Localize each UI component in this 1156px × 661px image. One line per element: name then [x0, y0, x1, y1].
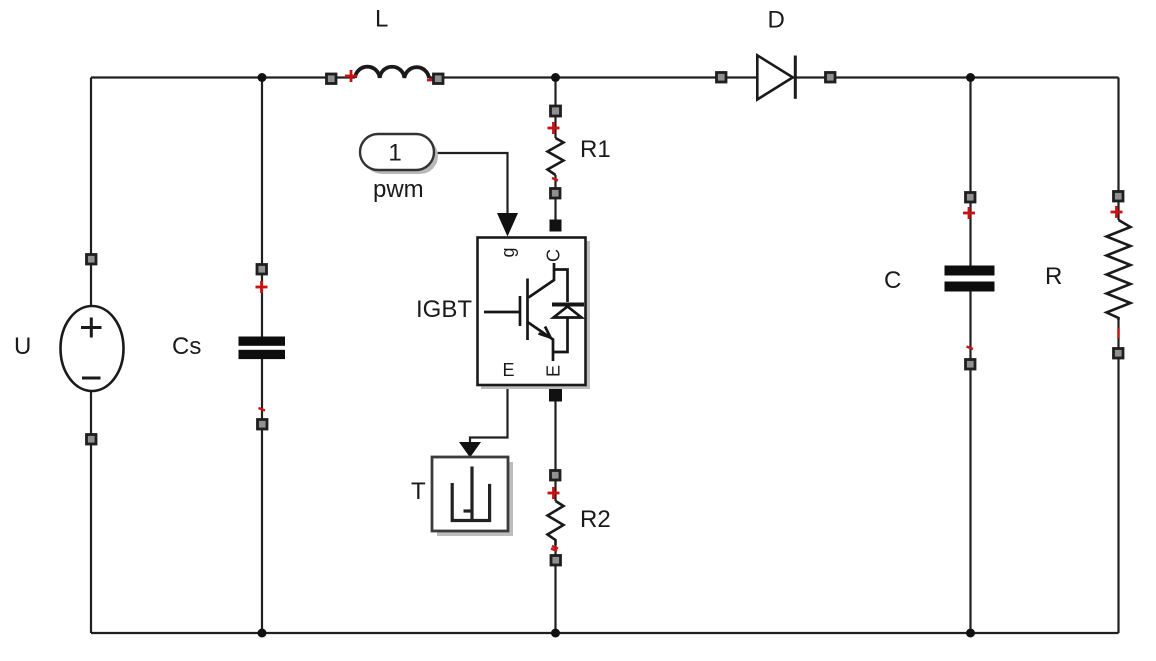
svg-text:R: R: [1045, 263, 1062, 290]
svg-text:Cs: Cs: [172, 333, 201, 360]
svg-text:T: T: [411, 478, 426, 505]
svg-text:C: C: [544, 249, 564, 262]
svg-text:R1: R1: [580, 136, 611, 163]
svg-text:U: U: [14, 333, 31, 360]
svg-text:IGBT: IGBT: [416, 296, 472, 323]
svg-text:R2: R2: [580, 506, 611, 533]
svg-text:D: D: [768, 7, 785, 34]
svg-text:L: L: [375, 6, 388, 33]
svg-text:1: 1: [388, 140, 401, 167]
svg-text:pwm: pwm: [373, 176, 424, 203]
svg-text:g: g: [498, 247, 518, 257]
svg-text:C: C: [884, 267, 901, 294]
svg-text:E: E: [502, 360, 514, 380]
svg-text:E: E: [544, 365, 564, 377]
